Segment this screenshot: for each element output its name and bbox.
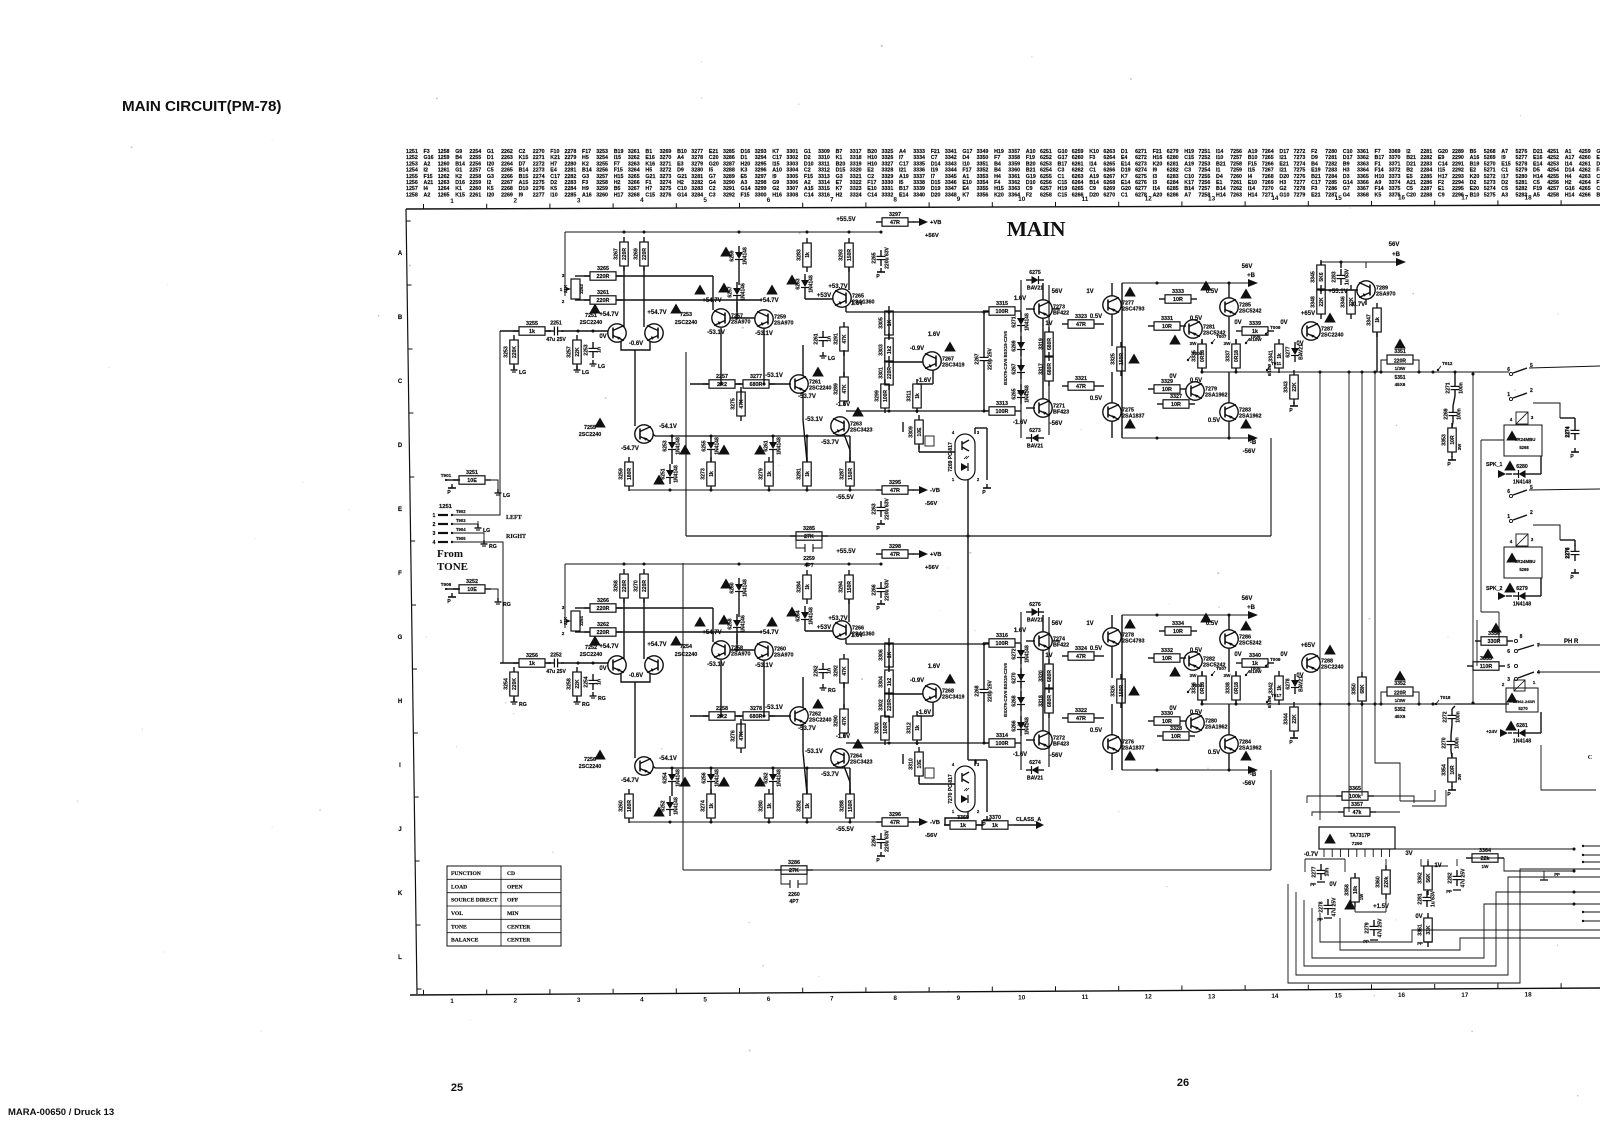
svg-text:BAV21: BAV21	[1027, 444, 1043, 450]
svg-text:1n: 1n	[597, 347, 603, 353]
svg-text:4266: 4266	[1579, 192, 1591, 198]
svg-text:2266: 2266	[872, 584, 878, 595]
resistor 3258 22K	[573, 672, 581, 696]
svg-text:H17: H17	[614, 192, 624, 198]
signal ground LG	[497, 489, 499, 493]
diode 6277 BAV21	[1291, 348, 1299, 355]
power flag +VB	[919, 550, 928, 558]
svg-text:G7: G7	[1343, 186, 1350, 192]
svg-text:10R: 10R	[1162, 387, 1172, 393]
transistor 7255 2SC2240	[635, 425, 653, 443]
resistor 3274 1k	[707, 794, 715, 818]
svg-text:1259: 1259	[438, 155, 450, 161]
svg-text:B14: B14	[455, 161, 465, 167]
svg-text:-56V: -56V	[1050, 753, 1063, 759]
svg-text:E4: E4	[1121, 155, 1128, 161]
svg-text:2SC4793: 2SC4793	[1122, 307, 1144, 313]
svg-text:10R: 10R	[1171, 734, 1181, 740]
scan specks	[1031, 56, 1032, 57]
svg-text:2260: 2260	[469, 186, 481, 192]
svg-text:A3: A3	[1501, 192, 1508, 198]
svg-text:5268: 5268	[1484, 149, 1496, 155]
svg-text:I9: I9	[519, 192, 523, 198]
svg-text:H14: H14	[1248, 192, 1258, 198]
svg-text:H19: H19	[994, 149, 1004, 155]
svg-text:7266: 7266	[1262, 161, 1274, 167]
svg-text:3271: 3271	[660, 161, 672, 167]
resistor 3323 47R	[1068, 320, 1094, 328]
svg-text:2251: 2251	[550, 321, 562, 327]
svg-text:4P7: 4P7	[804, 563, 813, 569]
svg-text:F15: F15	[804, 174, 813, 180]
diode 6264 1N4148	[801, 612, 809, 619]
svg-text:27K: 27K	[789, 868, 799, 874]
svg-text:100R: 100R	[996, 309, 1009, 315]
svg-text:6/10W: 6/10W	[1248, 669, 1262, 674]
svg-text:B19: B19	[614, 149, 624, 155]
svg-text:-53.1V: -53.1V	[765, 705, 783, 711]
warning triangle	[1506, 553, 1518, 563]
svg-text:1257: 1257	[406, 186, 418, 192]
top ruler ticks and column numbers	[423, 204, 425, 209]
svg-text:H9: H9	[582, 186, 589, 192]
svg-text:MIN: MIN	[507, 911, 519, 917]
svg-text:G14: G14	[741, 186, 751, 192]
svg-text:4263: 4263	[1579, 174, 1591, 180]
svg-text:F1: F1	[1375, 161, 1381, 167]
svg-text:3296: 3296	[755, 168, 767, 174]
svg-text:2: 2	[562, 631, 565, 636]
svg-text:3263: 3263	[628, 161, 640, 167]
svg-text:K17: K17	[1184, 180, 1194, 186]
wire diode string to bases	[736, 302, 738, 318]
svg-text:D4: D4	[1596, 161, 1600, 167]
svg-text:2269: 2269	[501, 192, 513, 198]
ground P	[1574, 569, 1576, 573]
svg-text:E16: E16	[1533, 155, 1542, 161]
svg-text:K7: K7	[836, 186, 843, 192]
svg-text:+1.5V: +1.5V	[1373, 904, 1389, 910]
diode 6263 1N4148	[801, 280, 809, 287]
svg-text:B4: B4	[1311, 161, 1318, 167]
svg-text:2269: 2269	[1444, 408, 1450, 419]
wire 7265 connections	[848, 599, 850, 622]
svg-text:2: 2	[562, 299, 565, 304]
svg-text:I15: I15	[1438, 168, 1445, 174]
svg-text:F19: F19	[1026, 155, 1035, 161]
warning triangle	[852, 739, 864, 749]
svg-text:RG: RG	[598, 696, 606, 702]
svg-text:D20: D20	[931, 192, 941, 198]
svg-text:T017: T017	[1271, 693, 1282, 698]
signal ground LG	[477, 524, 479, 528]
svg-text:0R18: 0R18	[1234, 682, 1240, 694]
wire 680R column	[1048, 617, 1050, 664]
svg-text:3360: 3360	[1376, 876, 1382, 888]
svg-text:C3: C3	[1184, 168, 1191, 174]
svg-text:I4: I4	[1248, 174, 1252, 180]
svg-text:G7: G7	[709, 174, 716, 180]
resistor 3262 220R	[590, 628, 616, 636]
resistor 3278 680R	[743, 712, 769, 720]
svg-text:2SC2240: 2SC2240	[1321, 333, 1343, 339]
test point T004	[1187, 691, 1189, 693]
wire speaker B out	[1529, 489, 1600, 490]
svg-text:18: 18	[1525, 991, 1533, 998]
svg-text:3295: 3295	[889, 480, 901, 486]
transistor 7259 2SA970	[755, 310, 773, 328]
wire bus B	[1348, 372, 1350, 812]
capacitor 2269 100n	[1449, 411, 1458, 413]
svg-text:3356: 3356	[1488, 631, 1500, 637]
wire feedback upper	[575, 607, 590, 609]
svg-text:56V: 56V	[1242, 264, 1253, 270]
svg-text:3332: 3332	[882, 192, 894, 198]
warning triangle	[812, 699, 824, 709]
svg-text:7270 PC-817: 7270 PC-817	[948, 774, 954, 804]
svg-text:C10: C10	[1184, 174, 1194, 180]
svg-text:F3: F3	[1089, 155, 1095, 161]
svg-text:3370: 3370	[1389, 155, 1401, 161]
svg-text:7281: 7281	[1325, 155, 1337, 161]
svg-text:D21: D21	[1406, 161, 1416, 167]
svg-text:7280: 7280	[1325, 149, 1337, 155]
svg-text:I14: I14	[1216, 149, 1223, 155]
wire 7263 connections	[843, 682, 845, 709]
svg-text:8: 8	[893, 995, 897, 1002]
svg-text:150R: 150R	[847, 249, 853, 261]
svg-text:110R: 110R	[1480, 664, 1493, 670]
resistor 3283 1k	[803, 243, 811, 267]
svg-text:F17: F17	[962, 168, 971, 174]
svg-text:H10: H10	[867, 161, 877, 167]
wire 7265 connections	[848, 267, 850, 290]
svg-text:10E: 10E	[467, 587, 477, 593]
svg-text:0.5V: 0.5V	[1190, 316, 1202, 322]
svg-text:7253: 7253	[680, 312, 692, 318]
svg-text:1V: 1V	[1086, 289, 1093, 295]
wire collectors diff pair	[623, 266, 625, 327]
svg-text:13: 13	[1208, 993, 1216, 1000]
svg-text:7265: 7265	[1262, 155, 1274, 161]
svg-text:0V: 0V	[1169, 374, 1176, 380]
svg-text:3292: 3292	[723, 192, 735, 198]
svg-text:2279: 2279	[565, 155, 577, 161]
svg-text:RG: RG	[519, 702, 527, 708]
svg-text:4265: 4265	[1579, 186, 1591, 192]
warning triangle	[679, 777, 691, 787]
svg-text:7277: 7277	[1294, 180, 1306, 186]
wire speaker A out	[1529, 366, 1600, 368]
svg-text:3265: 3265	[628, 174, 640, 180]
warning triangle	[766, 285, 778, 295]
svg-text:220K: 220K	[512, 346, 518, 358]
capacitor 2271 100n	[1451, 385, 1460, 387]
svg-text:PP: PP	[1446, 889, 1452, 894]
svg-text:B4: B4	[994, 168, 1001, 174]
contact 6-7	[1514, 649, 1517, 652]
svg-text:C9: C9	[1596, 174, 1600, 180]
capacitor 2262 1n	[819, 668, 828, 670]
svg-text:3328: 3328	[1170, 726, 1182, 732]
wire LG tap	[452, 521, 478, 524]
svg-text:56V: 56V	[1052, 289, 1063, 295]
svg-text:3361: 3361	[1357, 149, 1369, 155]
resistor 3294 150R	[845, 575, 853, 599]
svg-text:T007: T007	[1216, 666, 1227, 671]
resistor 3332 10R	[1154, 654, 1180, 662]
svg-text:1n: 1n	[597, 679, 603, 685]
diode 6272 1N4148	[1017, 650, 1025, 657]
svg-text:PP: PP	[1363, 939, 1369, 944]
svg-text:0V: 0V	[1415, 914, 1422, 920]
svg-text:26: 26	[1177, 1077, 1189, 1089]
svg-text:FUNCTION: FUNCTION	[451, 871, 481, 877]
svg-text:-0.9V: -0.9V	[910, 678, 924, 684]
svg-text:3260: 3260	[619, 800, 625, 812]
svg-text:2SC3419: 2SC3419	[942, 363, 964, 369]
resistor 3347 1k	[1373, 308, 1381, 332]
power flag +VB	[919, 218, 928, 226]
svg-text:3337: 3337	[913, 174, 925, 180]
svg-text:4: 4	[640, 997, 644, 1004]
svg-text:PP: PP	[1310, 882, 1316, 887]
svg-text:7264: 7264	[1262, 149, 1274, 155]
resistor 3361 33K	[1424, 918, 1432, 942]
svg-text:1N4148: 1N4148	[743, 579, 749, 597]
resistor 3356 330R	[1481, 637, 1507, 645]
ground P	[1293, 402, 1295, 406]
svg-text:-VB: -VB	[930, 488, 940, 494]
svg-text:3347: 3347	[945, 186, 957, 192]
svg-text:3264: 3264	[628, 168, 640, 174]
svg-text:3254: 3254	[504, 678, 510, 690]
wire opto	[902, 422, 904, 432]
wire opto2 class A	[945, 812, 968, 825]
svg-text:220R: 220R	[1394, 691, 1406, 697]
warning triangle	[720, 247, 732, 257]
svg-text:H14: H14	[1533, 174, 1543, 180]
svg-text:3270: 3270	[634, 580, 640, 592]
svg-text:B14: B14	[519, 168, 529, 174]
svg-text:5279: 5279	[1516, 168, 1528, 174]
svg-text:P: P	[447, 599, 451, 605]
capacitor 2274	[1571, 429, 1580, 431]
warning triangle	[1482, 649, 1494, 659]
warning triangle	[1169, 667, 1181, 677]
ground P	[451, 593, 453, 597]
test point T011	[1266, 369, 1268, 371]
svg-text:E16: E16	[645, 155, 654, 161]
svg-text:B14: B14	[1216, 186, 1226, 192]
warning triangle	[589, 636, 601, 646]
svg-text:3302: 3302	[879, 699, 885, 711]
svg-text:H19: H19	[1184, 149, 1194, 155]
svg-text:1/3W: 1/3W	[1395, 698, 1406, 703]
svg-text:1k2: 1k2	[887, 346, 893, 355]
resistor 3259 180R	[625, 462, 633, 486]
svg-text:2SC5242: 2SC5242	[1239, 309, 1261, 315]
svg-text:D1: D1	[487, 155, 494, 161]
svg-text:3253: 3253	[596, 149, 608, 155]
resistor 3335 0R18	[1198, 344, 1206, 368]
svg-text:6270: 6270	[1012, 672, 1018, 683]
svg-text:H14: H14	[1216, 192, 1226, 198]
svg-text:G19: G19	[1026, 174, 1036, 180]
resistor 3334 10R	[1165, 627, 1191, 635]
svg-text:2270: 2270	[1442, 737, 1448, 748]
svg-text:C9: C9	[1089, 186, 1096, 192]
wire pin bus	[1305, 858, 1345, 860]
svg-text:100R: 100R	[996, 409, 1009, 415]
svg-text:-53.7V: -53.7V	[798, 394, 816, 400]
svg-text:E: E	[398, 507, 402, 513]
svg-text:T009: T009	[1270, 657, 1281, 662]
svg-text:6261: 6261	[1072, 161, 1084, 167]
svg-text:680R: 680R	[750, 382, 763, 388]
transistor 7267 2SC3419	[923, 352, 941, 370]
svg-text:2262: 2262	[814, 665, 820, 676]
svg-text:10k: 10k	[1353, 886, 1359, 895]
svg-text:10R: 10R	[1173, 297, 1183, 303]
transistor 7281 2SC5242	[1184, 320, 1202, 338]
svg-text:2SA1837: 2SA1837	[1122, 746, 1144, 752]
svg-text:47R: 47R	[890, 552, 900, 558]
ground P	[986, 484, 988, 488]
svg-text:F2: F2	[1026, 192, 1032, 198]
svg-text:6252: 6252	[661, 800, 667, 811]
svg-text:7255: 7255	[1199, 174, 1211, 180]
svg-text:SOURCE DIRECT: SOURCE DIRECT	[451, 898, 498, 904]
svg-text:F17: F17	[867, 180, 876, 186]
svg-text:3323: 3323	[1075, 314, 1087, 320]
svg-text:7254: 7254	[1199, 168, 1211, 174]
wire 2SA970 link	[712, 276, 714, 310]
warning triangle	[653, 807, 665, 817]
wire 2SA970 collectors	[720, 660, 722, 716]
svg-text:G20: G20	[709, 161, 719, 167]
svg-text:7256: 7256	[1230, 149, 1242, 155]
svg-text:K20: K20	[1470, 174, 1480, 180]
svg-text:3313: 3313	[818, 174, 830, 180]
svg-text:A5: A5	[1533, 192, 1540, 198]
svg-text:10R: 10R	[1162, 656, 1172, 662]
resistor 3327 10R	[1163, 400, 1189, 408]
svg-text:5273: 5273	[1484, 180, 1496, 186]
svg-text:2257: 2257	[716, 374, 728, 380]
svg-text:+65V: +65V	[1301, 311, 1315, 317]
wire lower diode bus	[655, 767, 850, 769]
svg-text:2278: 2278	[565, 149, 577, 155]
svg-text:14: 14	[1271, 993, 1279, 1000]
wire negative rail channel 1	[629, 489, 881, 491]
svg-text:LOAD: LOAD	[451, 884, 467, 890]
svg-text:-1.6V: -1.6V	[1013, 752, 1027, 758]
transistor 7274 BF422	[1034, 632, 1052, 650]
capacitor 2266 220u 63V	[877, 587, 886, 589]
svg-text:1260: 1260	[438, 161, 450, 167]
wire input	[500, 662, 519, 664]
warning triangle	[594, 418, 606, 428]
resistor 3353 10R	[1448, 428, 1456, 452]
svg-text:C10: C10	[677, 186, 687, 192]
svg-text:T004: T004	[1192, 351, 1203, 356]
svg-text:VR24MBU: VR24MBU	[1515, 559, 1536, 564]
svg-text:2: 2	[514, 997, 518, 1004]
svg-text:3283: 3283	[797, 249, 803, 261]
warning triangle	[1200, 281, 1212, 291]
svg-text:3350: 3350	[977, 155, 989, 161]
svg-text:3256: 3256	[596, 168, 608, 174]
resistor 3309 10E	[915, 420, 923, 444]
resistor 3255 1k	[519, 327, 545, 335]
svg-text:3343: 3343	[1284, 381, 1290, 393]
transistor 7266 2SA1360	[833, 621, 851, 639]
svg-text:3350: 3350	[1352, 683, 1358, 695]
svg-text:G20: G20	[1438, 149, 1448, 155]
wire loop inner	[1340, 918, 1600, 950]
svg-text:3254: 3254	[596, 155, 608, 161]
svg-text:180R: 180R	[627, 468, 633, 480]
svg-text:F10: F10	[550, 149, 559, 155]
svg-text:3351: 3351	[1394, 349, 1406, 355]
test point T017	[1266, 701, 1268, 703]
svg-text:6263: 6263	[1072, 174, 1084, 180]
svg-text:3322: 3322	[1075, 708, 1087, 714]
svg-text:3281: 3281	[797, 468, 803, 480]
svg-text:1.6V: 1.6V	[851, 301, 863, 307]
svg-text:3277: 3277	[750, 374, 762, 380]
warning triangle	[1240, 289, 1252, 299]
svg-text:680R: 680R	[1047, 670, 1053, 682]
svg-text:7256: 7256	[1199, 180, 1211, 186]
warning triangle	[1124, 419, 1136, 429]
resistor 3290 47K	[840, 709, 848, 733]
resistor 3291 47K	[840, 327, 848, 351]
svg-text:3262: 3262	[628, 155, 640, 161]
svg-text:G16: G16	[1565, 186, 1575, 192]
wire 2SA970 link	[712, 608, 714, 642]
svg-text:C14: C14	[867, 192, 877, 198]
svg-text:3353: 3353	[977, 174, 989, 180]
svg-text:47R: 47R	[1076, 384, 1086, 390]
transistor 7289 2SA970	[1357, 281, 1375, 299]
diode 6271 1N4148	[1017, 318, 1025, 325]
svg-text:47R: 47R	[1076, 716, 1086, 722]
resistor 3296 47R	[882, 818, 908, 826]
capacitor 2261 1n	[819, 336, 828, 338]
svg-text:G17: G17	[1058, 155, 1068, 161]
svg-text:3270: 3270	[660, 155, 672, 161]
svg-text:6265: 6265	[1012, 388, 1018, 399]
svg-text:2292: 2292	[1452, 168, 1464, 174]
switch contact 1-2	[1509, 397, 1512, 400]
ground P	[880, 600, 882, 604]
svg-text:1N4148: 1N4148	[743, 247, 749, 265]
svg-text:11: 11	[1082, 994, 1089, 1001]
svg-text:7284: 7284	[1325, 174, 1337, 180]
svg-text:D3: D3	[1343, 174, 1350, 180]
relay VR24MBU 5269	[1504, 547, 1542, 578]
svg-text:G21: G21	[645, 174, 655, 180]
svg-text:A16: A16	[582, 192, 592, 198]
svg-text:K20: K20	[1153, 161, 1163, 167]
transistor 7256 2SC2240	[635, 757, 653, 775]
svg-text:3291: 3291	[723, 186, 735, 192]
svg-text:A: A	[398, 251, 403, 257]
signal ground RG	[513, 698, 515, 702]
svg-text:2294: 2294	[1452, 180, 1464, 186]
